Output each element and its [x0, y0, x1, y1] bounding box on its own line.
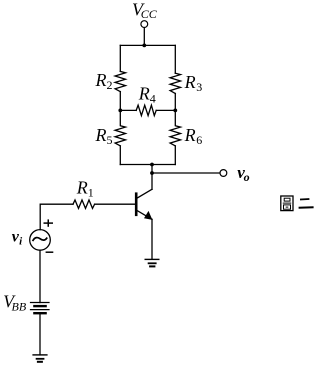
wire battery to ground: [39, 313, 41, 355]
junction dot middle rail right: [173, 109, 177, 113]
wire source to battery: [39, 250, 41, 302]
wire output to terminal: [152, 172, 220, 174]
wire left branch upper: [119, 45, 121, 71]
transistor Q1 emitter lead: [137, 210, 152, 219]
wire left branch middle: [119, 92, 121, 111]
node vo terminal circle: [220, 170, 227, 177]
label plus sign: [44, 219, 54, 226]
transistor Q1 base bar: [135, 194, 138, 215]
wire right branch lower: [174, 146, 176, 165]
wire middle rail right segment: [156, 109, 175, 111]
ground under emitter: [145, 259, 159, 266]
junction dot middle rail left: [118, 109, 122, 113]
resistor R4: [136, 105, 156, 115]
wire VCC stem: [143, 28, 145, 46]
wire middle rail left segment: [120, 109, 136, 111]
label figure caption 圖二: [281, 196, 314, 211]
source vi circle: [30, 230, 51, 251]
wire collector stem: [151, 165, 153, 190]
wire bottom rail: [120, 164, 175, 166]
wire right branch upper: [174, 45, 176, 73]
source vi sine symbol: [33, 238, 47, 241]
wire R1 to source corner: [40, 204, 73, 229]
label minus sign: [46, 251, 54, 253]
wire top rail: [120, 44, 175, 46]
junction dot bottom rail: [150, 163, 154, 167]
wire left branch lower: [119, 146, 121, 165]
resistor R3: [170, 73, 180, 93]
resistor R1: [73, 200, 95, 208]
resistor R5: [115, 110, 125, 145]
junction dot output tee: [150, 171, 154, 175]
node VCC terminal circle: [141, 21, 148, 28]
resistor R2: [115, 71, 125, 91]
ground under battery: [33, 355, 47, 362]
transistor Q1 collector lead: [137, 189, 152, 198]
junction dot at VCC tap: [142, 44, 146, 48]
battery VBB: [31, 303, 50, 314]
wire base: [95, 203, 135, 205]
wire right branch middle: [174, 94, 176, 111]
transistor Q1 emitter arrowhead: [144, 211, 152, 220]
wire emitter down: [151, 219, 153, 259]
resistor R6: [170, 110, 180, 145]
